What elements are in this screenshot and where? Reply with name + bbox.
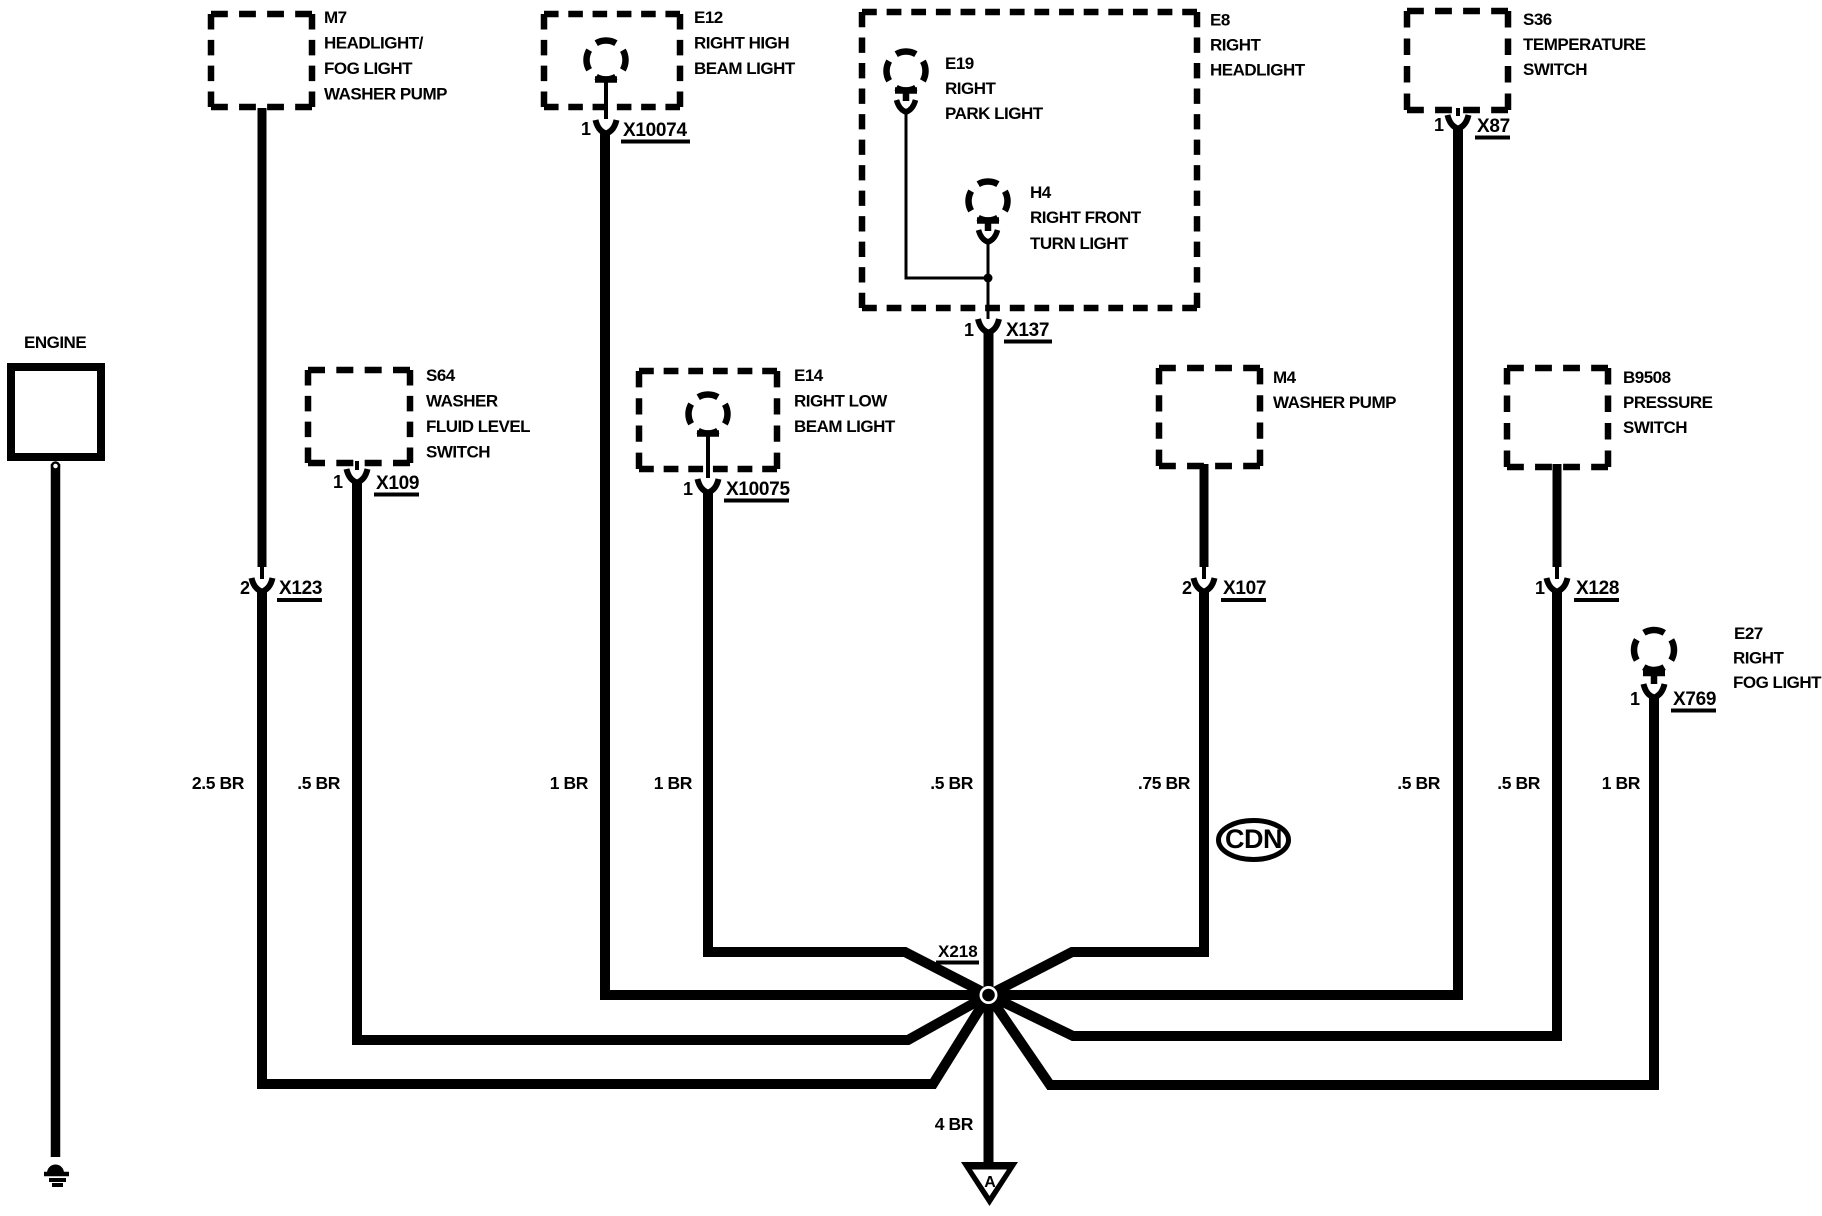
connector X10075, pin 1 [683,479,790,501]
connector X109, pin 1 [333,461,419,495]
svg-text:1 BR: 1 BR [550,773,589,793]
svg-text:X137: X137 [1006,320,1049,341]
svg-text:.5 BR: .5 BR [297,773,340,793]
svg-text:4 BR: 4 BR [935,1114,974,1134]
svg-text:A: A [984,1174,996,1191]
component E12 RIGHT HIGH BEAM LIGHT (dashed box) [544,14,680,107]
svg-text:1: 1 [1434,115,1444,135]
component E14 RIGHT LOW BEAM LIGHT (dashed box) [639,371,777,469]
svg-text:.5 BR: .5 BR [1397,773,1440,793]
wire W-M7: M7 washer pump to ground junction X218 [262,591,989,1084]
component S36 TEMPERATURE SWITCH (dashed box) [1407,11,1508,110]
ground: chassis ground bolt symbol below engine wire [44,1165,69,1186]
svg-text:1 BR: 1 BR [1602,773,1641,793]
connector X137, pin 1 [964,319,1052,342]
wire W-M4-upper: M4 box to connector X107 [1200,464,1209,567]
svg-text:X107: X107 [1223,578,1266,599]
wire H4 to junction [987,241,990,278]
wire W-E27: right fog light to X218 [989,698,1655,1085]
ground arrow A (triangle) [961,1162,1018,1206]
svg-text:2: 2 [240,578,250,598]
wire W-S64: washer fluid level switch to X218 [357,483,989,1040]
svg-text:X123: X123 [279,578,322,599]
bulb E19 RIGHT PARK LIGHT [887,52,926,113]
connector X123, pin 2 (on M7 wire) [240,578,322,600]
bulb E14 [689,395,728,479]
svg-text:2.5 BR: 2.5 BR [192,773,245,793]
wire W-M4: washer pump M4 to X218 [989,591,1205,995]
wire W-ENGINE: engine block to chassis ground [51,464,61,1157]
wire E19 to junction [905,111,908,280]
CDN market oval [1219,821,1289,860]
engine block E [11,333,101,470]
svg-text:.75 BR: .75 BR [1138,773,1191,793]
connector X128, pin 1 (on B9508 wire) [1535,578,1619,600]
svg-text:1: 1 [1535,578,1545,598]
bulb E27 RIGHT FOG LIGHT [1634,630,1674,684]
svg-text:CDN: CDN [1225,824,1282,854]
svg-text:X769: X769 [1673,689,1716,710]
svg-text:X128: X128 [1576,578,1619,599]
wire W-B9508: pressure switch to X218 [989,591,1558,1036]
svg-text:X87: X87 [1477,116,1510,137]
component B9508 PRESSURE SWITCH (dashed box) [1507,368,1608,467]
component S64 WASHER FLUID LEVEL SWITCH (dashed box) [308,370,410,463]
wire W-M7-upper: M7 box to connector X123 [258,108,267,567]
svg-text:1: 1 [581,119,591,139]
bulb H4 RIGHT FRONT TURN LIGHT [969,182,1008,243]
svg-text:2: 2 [1182,578,1192,598]
svg-text:X10075: X10075 [726,479,790,500]
connector X107, pin 2 (on M4 wire) [1182,578,1266,600]
wire junction down to X137 [987,278,990,319]
wire W-E12: right high beam light to X218 [605,133,989,995]
connector X10074, pin 1 [581,119,690,142]
svg-text:1: 1 [683,479,693,499]
wire W-E14: right low beam light to X218 [708,492,989,995]
wire W-S36: temperature switch to X218 [989,128,1459,995]
svg-text:1: 1 [1630,689,1640,709]
component E8 RIGHT HEADLIGHT (dashed box) [862,12,1197,308]
svg-text:X218: X218 [938,942,978,961]
svg-text:X109: X109 [376,473,419,494]
svg-text:1: 1 [964,320,974,340]
junction dot inside E8 [984,274,993,283]
connector X769, pin 1 [1630,684,1716,711]
svg-text:.5 BR: .5 BR [1497,773,1540,793]
wire W-B9508-upper: B9508 box to connector X128 [1553,464,1562,567]
connector X87, pin 1 [1434,108,1510,138]
svg-text:.5 BR: .5 BR [930,773,973,793]
svg-text:1 BR: 1 BR [654,773,693,793]
svg-text:ENGINE: ENGINE [24,333,86,352]
svg-text:X10074: X10074 [623,120,687,141]
node X218 ground distribution splice [936,942,998,1004]
wire W-MAIN: X137 down through X218 to ground arrow A [984,332,994,1164]
component M7 HEADLIGHT/FOG LIGHT WASHER PUMP (dashed box) [211,14,312,107]
bulb E12 [587,41,626,120]
component M4 WASHER PUMP (dashed box) [1159,368,1260,466]
svg-text:1: 1 [333,472,343,492]
